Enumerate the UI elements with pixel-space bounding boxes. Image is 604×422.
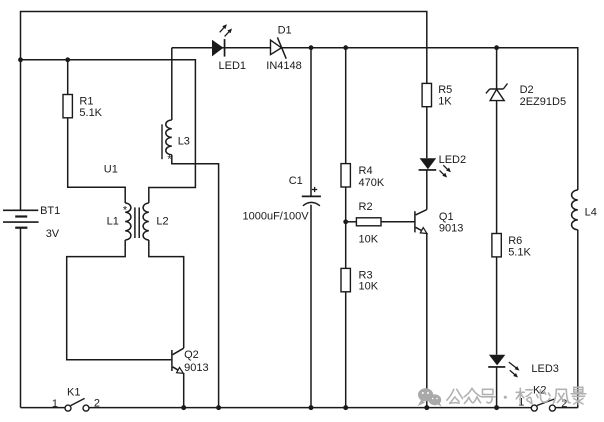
svg-text:R2: R2	[359, 201, 373, 213]
svg-text:2: 2	[94, 398, 100, 410]
svg-text:D2: D2	[520, 84, 534, 96]
svg-text:L4: L4	[585, 207, 597, 219]
svg-text:2EZ91D5: 2EZ91D5	[520, 96, 566, 108]
svg-text:*: *	[123, 204, 128, 216]
svg-text:C1: C1	[289, 175, 303, 187]
svg-text:10K: 10K	[359, 233, 379, 245]
svg-text:10K: 10K	[359, 281, 379, 293]
svg-text:5.1K: 5.1K	[508, 247, 531, 259]
svg-text:LED3: LED3	[531, 363, 559, 375]
svg-text:R4: R4	[359, 165, 373, 177]
svg-text:Q1: Q1	[439, 211, 454, 223]
svg-text:9013: 9013	[439, 223, 463, 235]
svg-text:IN4148: IN4148	[266, 60, 301, 72]
svg-text:LED2: LED2	[439, 154, 467, 166]
svg-text:L2: L2	[156, 216, 168, 228]
svg-text:R6: R6	[508, 235, 522, 247]
svg-text:LED1: LED1	[219, 60, 247, 72]
svg-text:Q2: Q2	[184, 349, 199, 361]
svg-text:*: *	[167, 153, 172, 165]
svg-text:3V: 3V	[46, 228, 60, 240]
svg-text:1K: 1K	[438, 96, 452, 108]
svg-text:470K: 470K	[359, 177, 385, 189]
svg-text:5.1K: 5.1K	[79, 107, 102, 119]
svg-text:R1: R1	[79, 95, 93, 107]
svg-text:R5: R5	[438, 84, 452, 96]
svg-text:1000uF/100V: 1000uF/100V	[243, 211, 310, 223]
svg-text:L3: L3	[178, 136, 190, 148]
svg-text:1: 1	[52, 398, 58, 410]
svg-text:K1: K1	[67, 386, 80, 398]
svg-text:D1: D1	[278, 24, 292, 36]
svg-text:U1: U1	[104, 163, 118, 175]
svg-text:L1: L1	[107, 216, 119, 228]
svg-text:9013: 9013	[184, 362, 208, 374]
svg-text:BT1: BT1	[40, 205, 60, 217]
